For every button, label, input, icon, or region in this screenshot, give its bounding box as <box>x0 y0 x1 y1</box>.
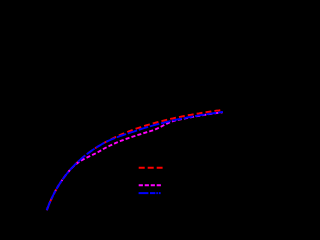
plot background <box>0 0 240 229</box>
chart: three dashed log-shaped curves on black background <box>0 0 240 229</box>
legend red dashed sample <box>139 167 163 169</box>
legend magenta dashed sample <box>139 184 161 186</box>
legend blue dashed sample <box>139 192 161 194</box>
magenta curve (short dashes) <box>47 112 223 210</box>
red curve (dashed) <box>47 110 223 210</box>
blue curve (dense dashes) <box>47 112 223 210</box>
